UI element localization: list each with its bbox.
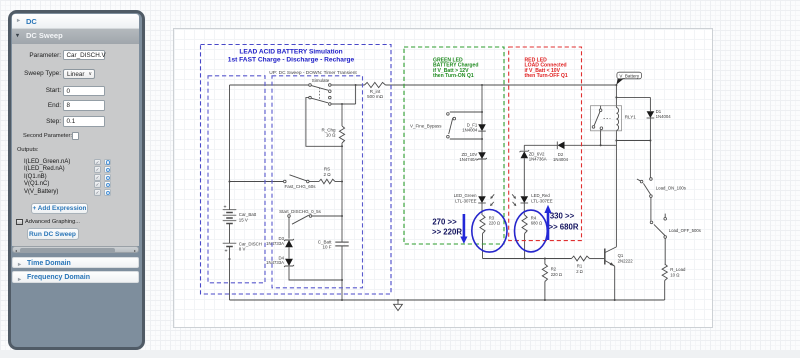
svg-text:1N4733A: 1N4733A	[266, 241, 284, 246]
svg-text:Fast_CHG_60s: Fast_CHG_60s	[284, 184, 316, 189]
svg-text:1st FAST Charge - Discharge -: 1st FAST Charge - Discharge - Recharge	[228, 56, 355, 63]
svg-text:1N4004: 1N4004	[462, 128, 478, 133]
svg-text:270 >>: 270 >>	[432, 218, 457, 227]
svg-text:R2: R2	[551, 266, 557, 271]
svg-text:+: +	[224, 248, 227, 254]
svg-text:>> 680R: >> 680R	[549, 223, 579, 232]
svg-text:330 >>: 330 >>	[550, 211, 575, 220]
svg-text:1N4004: 1N4004	[656, 114, 672, 119]
svg-text:220 Ω: 220 Ω	[551, 272, 562, 277]
svg-text:8 V: 8 V	[239, 246, 246, 251]
svg-text:V_Fine_Bypass: V_Fine_Bypass	[410, 123, 442, 128]
svg-text:500 mΩ: 500 mΩ	[367, 94, 384, 99]
svg-text:2N2222: 2N2222	[618, 259, 634, 264]
svg-text:then Turn-OFF Q1: then Turn-OFF Q1	[525, 73, 568, 79]
svg-text:Load_OFF_500s: Load_OFF_500s	[669, 228, 701, 233]
svg-text:10 Ω: 10 Ω	[326, 133, 336, 138]
svg-text:Car_Batt: Car_Batt	[239, 212, 257, 217]
svg-text:R_Chg: R_Chg	[321, 127, 336, 132]
svg-text:15 V: 15 V	[239, 217, 248, 222]
svg-text:1N4733A: 1N4733A	[266, 260, 284, 265]
svg-text:Start_DISCHG_0_5s: Start_DISCHG_0_5s	[279, 209, 322, 214]
svg-text:10 F: 10 F	[322, 244, 331, 249]
svg-text:RLY1: RLY1	[625, 114, 636, 119]
svg-text:LTL-307EE: LTL-307EE	[455, 198, 477, 203]
svg-text:+: +	[223, 204, 226, 210]
svg-text:LEAD ACID BATTERY Simulation: LEAD ACID BATTERY Simulation	[239, 49, 342, 56]
svg-text:V_Battery: V_Battery	[619, 73, 640, 78]
svg-text:Simulate: Simulate	[312, 78, 330, 83]
svg-text:220 Ω: 220 Ω	[489, 220, 500, 225]
svg-text:then Turn-ON Q1: then Turn-ON Q1	[433, 73, 474, 79]
svg-text:2 Ω: 2 Ω	[576, 269, 583, 274]
svg-text:1N4004: 1N4004	[553, 157, 569, 162]
svg-text:R_Load: R_Load	[670, 267, 686, 272]
svg-text:Load_ON_100s: Load_ON_100s	[656, 186, 686, 191]
svg-text:2 Ω: 2 Ω	[323, 172, 331, 177]
svg-text:UP: DC Sweep - DOWN: Timer Tra: UP: DC Sweep - DOWN: Timer Transient	[269, 70, 357, 76]
svg-text:10 Ω: 10 Ω	[670, 272, 680, 277]
svg-text:1N4736A: 1N4736A	[529, 156, 547, 161]
svg-text:LTL-307EE: LTL-307EE	[531, 198, 553, 203]
svg-text:R1: R1	[577, 263, 583, 268]
svg-text:RS: RS	[324, 167, 330, 172]
svg-text:>> 220R: >> 220R	[432, 228, 462, 237]
svg-text:1N4740A: 1N4740A	[459, 157, 477, 162]
svg-text:Q1: Q1	[618, 253, 624, 258]
svg-text:680 Ω: 680 Ω	[531, 220, 542, 225]
